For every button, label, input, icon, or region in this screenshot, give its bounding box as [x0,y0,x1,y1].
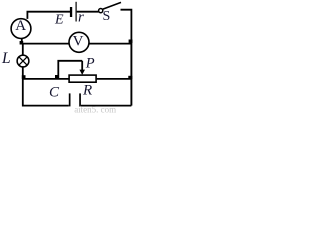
wire: rheostat row right segment [97,78,132,80]
voltmeter V [69,32,89,52]
svg-text:S: S [103,9,111,24]
wire: voltmeter branch right segment [89,43,131,45]
svg-text:r: r [78,9,84,25]
battery positive plate (long thin) [76,2,77,22]
wire: fixed contact to right corner [121,10,132,41]
wire: voltmeter branch left segment [22,43,69,45]
svg-text:P: P [85,55,95,71]
wire: bottom rail right of capacitor [81,105,131,107]
switch pivot circle [99,9,103,13]
node: junction rheostat row on right rail [128,76,132,79]
svg-text:E: E [54,13,64,28]
left plate [69,93,71,106]
svg-text:V: V [73,33,84,49]
wire: rheostat row left segment [23,78,69,80]
lamp L [17,55,29,67]
switch S [99,2,132,41]
wire: slider stub up and over [58,61,82,79]
capacitor C [69,93,81,106]
wire: battery to switch pivot [77,11,99,13]
wire: left rail down to bottom corner and bottom rail to capacitor [23,79,69,106]
node: junction voltmeter branch on right rail [129,40,133,43]
svg-text:L: L [1,50,11,67]
svg-text:R: R [82,83,92,99]
battery negative plate (short thick) [70,7,72,17]
wire: right rail [130,41,132,106]
battery E r [70,2,99,22]
svg-text:C: C [49,85,60,101]
node: junction below lamp [22,75,26,79]
right plate [79,93,81,106]
ammeter A [11,19,31,39]
wire: ammeter bottom to junction [21,38,23,43]
wire: top rail from ammeter corner to battery [27,12,70,19]
slider arrow P [79,61,85,75]
svg-text:A: A [15,18,26,34]
wire: left rail junction to lamp [22,44,24,56]
wire: lamp to junction2 [22,67,24,79]
switch blade [103,2,121,9]
node: slider stub junction [55,75,59,79]
node: junction below ammeter [20,41,24,45]
rheostat R body [69,75,96,82]
